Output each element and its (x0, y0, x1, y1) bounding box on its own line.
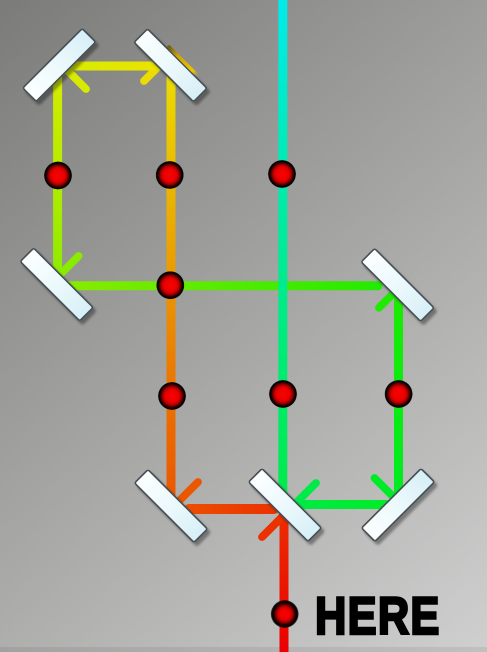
mirror A (23, 29, 96, 102)
bottom edge shade (0, 647, 487, 652)
arrow at mirror F (red, from below) (262, 512, 297, 537)
mirror F (249, 469, 322, 542)
mirror E (135, 470, 208, 543)
arrow at mirror E (171, 482, 198, 531)
arrow at mirror C (37, 256, 79, 277)
arrow at mirror B (144, 60, 186, 81)
arrow at mirror F (green, from right) (294, 483, 316, 521)
wire S7: green beam mirror D down to mirror G (394, 295, 403, 494)
node dot 1 (44, 162, 72, 190)
label HERE (315, 587, 441, 646)
wire S9: spring-to-cyan beam mirror F up to top edge (278, 0, 287, 496)
wire S8: green beam mirror G to mirror F (300, 500, 387, 509)
mirror D (361, 248, 434, 321)
mirror B (134, 29, 207, 102)
wire S2: orange beam mirror F to mirror E (189, 504, 274, 514)
beam glow along mirror B edge (169, 47, 197, 75)
wire S1: red beam HERE to mirror F (280, 521, 289, 652)
wire S4: yellow beam mirror B to mirror A (72, 62, 156, 71)
arrow at mirror A (63, 43, 86, 89)
wire S3: orange-to-yellow beam mirror E up to mirror B (167, 77, 176, 499)
wire S6: green beam mirror C to mirror D (68, 281, 378, 290)
arrow at mirror G (375, 478, 421, 502)
wire S5: yellow-green beam mirror A down to mirror C (53, 78, 62, 274)
node dot HERE (271, 600, 299, 628)
node dot 7 (385, 380, 413, 408)
arrow at mirror D (379, 264, 401, 308)
node dot 5 (158, 382, 186, 410)
mirror C (20, 248, 93, 321)
svg-text:HERE: HERE (315, 587, 441, 646)
node dot 6 (269, 380, 297, 408)
node dot 3 (268, 160, 296, 188)
mirror G (362, 469, 435, 542)
node dot 2 (156, 161, 184, 189)
node dot 4 (beam crossing) (156, 271, 184, 299)
